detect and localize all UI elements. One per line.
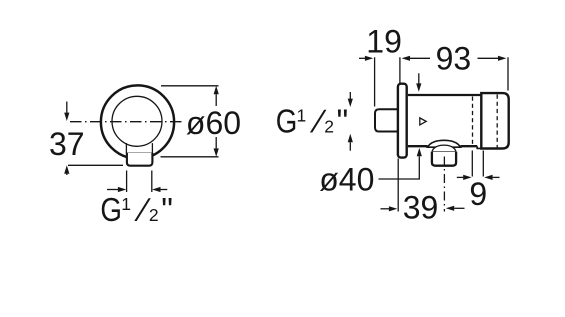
svg-text:1: 1 [121,194,131,214]
dim 9 left arrow [457,176,464,178]
svg-text:2: 2 [324,117,334,137]
dim o60 line lower + arrow down [215,137,217,148]
svg-text:ø60: ø60 [186,105,241,141]
dim 39 right arrow [446,206,454,211]
svg-text:1: 1 [297,106,307,126]
dim 39 left arrow [381,208,390,210]
outer circle [101,85,174,158]
G 1/2 text right [276,103,349,141]
svg-text:19: 19 [366,24,402,60]
svg-text:37: 37 [49,126,85,162]
dim 37 upper arrow [66,102,68,114]
dim 93 right extension [507,57,509,90]
svg-text:": " [161,191,173,228]
wall flange [398,84,407,158]
dim o60 line upper + arrow up [214,86,219,94]
dim 37 bottom extension [68,164,123,166]
svg-text:93: 93 [436,40,472,76]
dim 19 left extension [374,57,376,106]
body bottom edge left [408,145,428,147]
G12 right: up arrow [348,134,353,142]
dim 19/93 shared extension [399,57,401,83]
centerline horizontal [70,121,183,123]
body bottom edge right [461,145,478,147]
collar right edge [151,143,153,153]
o40 bottom arrow + leader [417,148,422,156]
dim 9 right extension [482,151,484,177]
flange extension line down [397,159,399,212]
dim G12 left arrow [107,189,118,191]
body bottom step [477,146,481,148]
dim G12 left extension [126,171,128,193]
hidden dashed line cap [496,95,498,148]
outlet nut [432,152,456,166]
hidden dashed line body [472,97,474,146]
collar step line [126,152,153,154]
push button cap [481,93,508,148]
dim 93 right line + arrow [478,57,499,59]
outlet centerline [443,157,445,212]
inner circle [112,96,162,146]
svg-text:39: 39 [403,190,439,226]
dim o60 bottom extension [161,156,219,158]
o40 top arrow [418,73,420,83]
threaded connector [375,109,398,131]
svg-text:2: 2 [149,205,159,225]
dim 93 left arrow [402,56,410,61]
svg-text:ø40: ø40 [319,161,374,197]
G12 right: down arrow [349,92,351,100]
outlet nut top line [432,151,456,153]
dim 19 left arrow [359,57,365,59]
svg-text:G: G [100,192,122,229]
body top edge [408,94,481,96]
dim G12 right extension [151,171,153,193]
svg-text:9: 9 [469,176,487,212]
dim G12 right arrow [152,187,160,192]
dim 9 left extension [471,151,473,177]
spout [127,153,152,166]
svg-text:": " [337,103,349,140]
flow triangle [420,118,426,125]
dim o60 top extension [161,85,219,87]
svg-text:G: G [276,103,298,140]
G 1/2 text left [100,191,173,229]
collar left edge [125,143,127,153]
dim 37 lower arrow [64,165,69,173]
outlet dome inner [432,145,456,152]
outlet dome outer [428,140,461,147]
dim 9 right arrow [484,175,492,180]
